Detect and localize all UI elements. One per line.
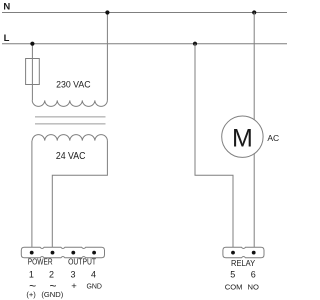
terminal block POWER/OUTPUT outline (21, 247, 104, 257)
terminal 5 contact (231, 251, 235, 255)
terminal block RELAY outline (223, 247, 264, 257)
motor M1 (222, 116, 263, 157)
wire L bus (2, 43, 287, 45)
svg-text:3: 3 (70, 270, 75, 280)
svg-text:GND: GND (86, 282, 102, 291)
svg-text:6: 6 (251, 269, 256, 279)
wire primary right to N (106, 13, 108, 101)
svg-text:+: + (71, 281, 77, 292)
svg-text:230 VAC: 230 VAC (56, 80, 91, 91)
terminal 1 contact (30, 251, 34, 255)
svg-text:(GND): (GND) (41, 290, 63, 299)
terminal 2 contact (51, 251, 55, 255)
svg-text:24 VAC: 24 VAC (56, 151, 86, 162)
junction on N at primary (105, 10, 109, 14)
terminal 4 contact (92, 251, 96, 255)
transformer T1 secondary winding (32, 135, 107, 141)
junction on L at fuse branch (30, 42, 34, 46)
svg-text:L: L (4, 33, 10, 44)
svg-text:RELAY: RELAY (231, 259, 256, 268)
svg-text:M: M (232, 124, 253, 152)
wire N bus (2, 12, 287, 14)
svg-text:NO: NO (248, 283, 259, 292)
svg-text:5: 5 (230, 269, 235, 279)
transformer T1 primary winding (32, 100, 107, 106)
terminal 3 contact (71, 251, 75, 255)
wire N to motor to relay terminal 6 NO (253, 13, 255, 253)
fuse F1 (26, 59, 40, 85)
junction on L at relay branch (193, 42, 197, 46)
svg-text:OUTPUT: OUTPUT (68, 258, 96, 267)
svg-text:AC: AC (267, 133, 279, 143)
svg-text:4: 4 (91, 270, 96, 280)
svg-text:(+): (+) (26, 290, 36, 299)
wire L to relay terminal 5 COM (195, 44, 233, 253)
wire L to fuse to primary (31, 44, 33, 101)
junction on N at motor branch (252, 10, 256, 14)
terminal 6 contact (252, 251, 256, 255)
svg-text:POWER: POWER (28, 258, 53, 267)
svg-text:COM: COM (225, 283, 243, 292)
wire secondary left to terminal 1 (31, 141, 33, 253)
transformer T1 core (35, 117, 106, 124)
wire secondary right to terminal 2 (52, 141, 107, 253)
svg-text:N: N (3, 1, 10, 12)
